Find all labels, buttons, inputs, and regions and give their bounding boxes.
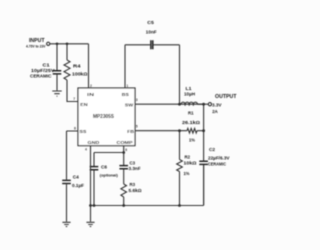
pin GND (4) — [85, 140, 100, 152]
pin FB (5) — [127, 125, 138, 134]
capacitor C5 — [125, 20, 180, 50]
svg-text:1: 1 — [126, 84, 128, 88]
svg-text:C4: C4 — [73, 175, 79, 180]
svg-text:8: 8 — [74, 127, 76, 131]
ground (C1) — [52, 91, 61, 96]
junction: GND / rail — [89, 204, 92, 207]
junction: C1 tap — [56, 43, 59, 46]
junction: FB / R2 — [178, 129, 181, 132]
svg-text:10kΩ: 10kΩ — [184, 160, 198, 165]
capacitor C2 — [199, 147, 229, 206]
resistor R4 — [64, 44, 88, 102]
svg-text:R1: R1 — [188, 110, 194, 115]
svg-text:EN: EN — [80, 102, 88, 107]
svg-text:BS: BS — [122, 92, 129, 97]
output terminal — [208, 103, 211, 106]
svg-text:5: 5 — [136, 125, 138, 129]
svg-text:2A: 2A — [212, 109, 218, 114]
svg-text:SS: SS — [79, 129, 86, 134]
IC U1 MP2305S body — [78, 88, 135, 146]
ground (C4) — [62, 222, 70, 226]
svg-text:C2: C2 — [209, 147, 215, 152]
svg-text:26.1kΩ: 26.1kΩ — [182, 120, 201, 125]
svg-text:R4: R4 — [73, 64, 81, 69]
resistor R1 — [182, 110, 204, 142]
svg-text:C1: C1 — [43, 63, 51, 68]
junction: C6 / rail — [93, 204, 96, 207]
svg-text:MP2305S: MP2305S — [93, 114, 115, 120]
svg-text:C6: C6 — [101, 164, 107, 169]
junction: R2 / rail — [178, 204, 181, 207]
junction: R3 / rail — [122, 204, 125, 207]
input terminal — [47, 42, 50, 45]
wire: C5 riser down to SW node — [179, 45, 181, 104]
junction: COMP / C6 branch — [122, 151, 125, 154]
svg-text:R3: R3 — [130, 182, 136, 187]
svg-text:6: 6 — [125, 148, 127, 152]
svg-text:4.75V to 23V: 4.75V to 23V — [26, 45, 46, 49]
svg-text:22µF/6.3V: 22µF/6.3V — [208, 156, 230, 161]
svg-text:OUTPUT: OUTPUT — [215, 94, 237, 100]
capacitor C4 — [62, 175, 84, 222]
pin SS (8) — [74, 127, 86, 134]
resistor R3 — [121, 182, 142, 206]
wire: C6 branch horizontal — [94, 152, 124, 154]
svg-text:10µF/25V: 10µF/25V — [31, 68, 55, 73]
pin SW (3) — [125, 98, 138, 108]
svg-text:3: 3 — [136, 98, 138, 102]
svg-text:CERAMIC: CERAMIC — [208, 162, 226, 167]
wire: FB pin to R1 — [135, 130, 187, 132]
svg-text:4: 4 — [85, 148, 87, 152]
junction: SW / C5 — [178, 103, 181, 106]
svg-text:1%: 1% — [189, 137, 195, 142]
wire: bottom ground rail — [91, 165, 204, 205]
resistor R2 — [177, 131, 198, 206]
wire: L1 to output terminal — [198, 103, 209, 105]
svg-text:10nF: 10nF — [146, 29, 157, 34]
wire: SW pin to L1 — [135, 103, 181, 105]
capacitor C3 — [119, 160, 141, 184]
wire: input rail to IN corner — [50, 43, 89, 45]
svg-text:COMP: COMP — [117, 140, 133, 145]
svg-text:IN: IN — [87, 92, 95, 97]
svg-text:GND: GND — [88, 140, 101, 145]
junction: output rail tap — [202, 103, 205, 106]
svg-text:C5: C5 — [147, 20, 154, 25]
svg-text:10µH: 10µH — [184, 91, 195, 96]
wire: SS pin to C4 — [67, 131, 79, 180]
capacitor C6 (optional) — [90, 153, 119, 206]
svg-text:SW: SW — [125, 102, 134, 107]
svg-text:L1: L1 — [186, 86, 192, 91]
pin EN (7) — [73, 97, 88, 107]
node VOUT: OUTPUT labels — [212, 94, 237, 114]
svg-text:1%: 1% — [184, 171, 190, 176]
pin COMP (6) — [117, 140, 133, 152]
junction: R1 / output rail — [202, 129, 205, 132]
svg-text:CERAMIC: CERAMIC — [30, 74, 52, 79]
wire: BS riser (pin 1) — [124, 45, 126, 88]
svg-text:5.6kΩ: 5.6kΩ — [129, 188, 143, 193]
pin BS (1) — [122, 84, 129, 97]
svg-text:0.1µF: 0.1µF — [72, 183, 84, 188]
svg-text:2: 2 — [90, 84, 92, 88]
inductor L1 — [180, 86, 204, 106]
ground (main rail) — [86, 222, 94, 226]
svg-text:R2: R2 — [185, 154, 191, 159]
pin IN (2) — [87, 84, 95, 97]
svg-text:100kΩ: 100kΩ — [72, 71, 88, 76]
svg-text:FB: FB — [127, 129, 135, 134]
svg-text:7: 7 — [73, 97, 75, 101]
wire: COMP pin down — [123, 146, 125, 166]
capacitor C1 — [30, 44, 61, 91]
svg-text:3.3nF: 3.3nF — [129, 166, 141, 171]
node VIN: INPUT labels — [26, 38, 46, 49]
wire: GND pin down — [90, 146, 92, 222]
svg-text:C3: C3 — [130, 160, 136, 165]
svg-text:INPUT: INPUT — [29, 38, 45, 44]
wire: output rail down to C2 — [203, 104, 205, 160]
junction: R4 tap — [66, 43, 69, 46]
svg-text:(optional): (optional) — [100, 172, 119, 177]
svg-text:3.3V: 3.3V — [212, 102, 222, 107]
wire: IN riser (pin 2) — [88, 44, 90, 88]
